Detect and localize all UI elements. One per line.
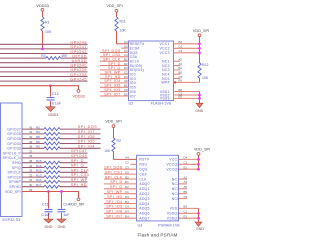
svg-text:SPI_Q: SPI_Q — [71, 164, 84, 168]
svg-text:R16: R16 — [36, 164, 42, 168]
svg-text:R9: R9 — [36, 140, 40, 144]
svg-text:SPI_WP: SPI_WP — [71, 178, 88, 182]
svg-text:C4: C4 — [179, 49, 183, 53]
svg-text:499: 499 — [61, 54, 67, 58]
svg-text:SPIHD: SPIHD — [9, 185, 21, 189]
svg-text:VDD_SPI: VDD_SPI — [193, 29, 209, 33]
svg-text:FLASH-1V8: FLASH-1V8 — [151, 101, 171, 105]
svg-text:VDD_SPI: VDD_SPI — [106, 4, 122, 8]
svg-text:VSSQ3: VSSQ3 — [167, 217, 180, 221]
svg-text:GPIO37: GPIO37 — [7, 127, 21, 131]
svg-text:RST#: RST# — [139, 158, 149, 162]
svg-text:GND: GND — [58, 225, 66, 229]
svg-text:ESP32-S3: ESP32-S3 — [3, 218, 21, 222]
svg-text:IO7: IO7 — [130, 94, 136, 98]
svg-text:SPI_IO4: SPI_IO4 — [78, 144, 95, 148]
svg-text:U0TXD: U0TXD — [72, 54, 87, 58]
svg-text:10K: 10K — [45, 30, 52, 34]
svg-text:U0RXD: U0RXD — [72, 59, 87, 63]
svg-text:VSS1: VSS1 — [170, 207, 180, 211]
svg-text:SI(IO0): SI(IO0) — [130, 64, 143, 68]
svg-text:SPI_HD: SPI_HD — [71, 183, 87, 187]
svg-text:SPI_DQS: SPI_DQS — [78, 125, 97, 129]
svg-text:ADQ7: ADQ7 — [139, 217, 149, 221]
svg-text:SPI_IO5: SPI_IO5 — [78, 140, 95, 144]
svg-text:R14: R14 — [36, 178, 42, 182]
svg-text:R2: R2 — [117, 139, 122, 143]
svg-text:GPIO33: GPIO33 — [7, 147, 21, 151]
svg-text:SPIQ: SPIQ — [12, 166, 21, 170]
svg-text:VSSQ2: VSSQ2 — [167, 212, 180, 216]
svg-text:GPIO48: GPIO48 — [71, 154, 87, 158]
svg-text:R20: R20 — [36, 169, 42, 173]
svg-text:GPIO42: GPIO42 — [70, 50, 87, 54]
svg-text:GPIO36: GPIO36 — [7, 132, 21, 136]
svg-text:SPI_D: SPI_D — [110, 180, 122, 184]
svg-text:PSRAM-1V8: PSRAM-1V8 — [158, 223, 180, 227]
svg-text:D1: D1 — [179, 45, 183, 49]
svg-text:NC1: NC1 — [172, 177, 180, 181]
svg-text:A4: A4 — [125, 156, 129, 160]
svg-text:10K: 10K — [202, 76, 209, 80]
svg-text:R15: R15 — [36, 159, 42, 163]
svg-text:VDD33: VDD33 — [72, 94, 84, 98]
svg-text:SPI_D: SPI_D — [108, 62, 120, 66]
svg-text:NC2: NC2 — [172, 182, 180, 186]
svg-text:E1: E1 — [184, 166, 188, 170]
svg-text:R4: R4 — [36, 130, 40, 134]
svg-text:SPI_HD: SPI_HD — [107, 195, 122, 199]
svg-text:DQS: DQS — [139, 168, 148, 172]
svg-text:GPIO40: GPIO40 — [70, 64, 87, 68]
svg-text:GPIO38: GPIO38 — [70, 73, 87, 77]
svg-text:SPICS0: SPICS0 — [7, 175, 21, 179]
svg-text:IO4: IO4 — [130, 81, 136, 85]
svg-text:GPIO39: GPIO39 — [70, 68, 87, 72]
svg-text:C1: C1 — [184, 161, 188, 165]
svg-text:R6: R6 — [36, 145, 40, 149]
svg-text:1uF: 1uF — [63, 213, 69, 217]
svg-text:GPIO45: GPIO45 — [70, 77, 87, 81]
svg-text:B3: B3 — [184, 205, 188, 209]
svg-text:SPI_WP: SPI_WP — [105, 71, 121, 75]
svg-text:VDD_SPI: VDD_SPI — [69, 202, 84, 206]
svg-text:SPI_WP: SPI_WP — [106, 190, 122, 194]
svg-text:R12: R12 — [202, 63, 208, 67]
svg-text:C14: C14 — [63, 202, 69, 206]
svg-text:VDD_SPI: VDD_SPI — [105, 120, 121, 124]
svg-text:SPIWP: SPIWP — [9, 180, 22, 184]
svg-text:SPI_CS0: SPI_CS0 — [71, 173, 89, 177]
svg-text:ADQ6: ADQ6 — [139, 212, 149, 216]
svg-text:VCC1: VCC1 — [169, 158, 179, 162]
svg-text:C13: C13 — [52, 92, 58, 96]
svg-text:CS#: CS# — [130, 55, 137, 59]
svg-text:A5: A5 — [184, 185, 188, 189]
svg-text:GPIO47: GPIO47 — [71, 149, 87, 153]
svg-text:R3: R3 — [41, 54, 45, 58]
svg-text:SPI_IO4: SPI_IO4 — [106, 200, 122, 204]
svg-text:VDD33: VDD33 — [36, 3, 49, 8]
svg-text:GND: GND — [195, 109, 203, 113]
svg-text:ADQ0: ADQ0 — [139, 182, 149, 186]
svg-text:GPIO35: GPIO35 — [7, 137, 21, 141]
svg-text:IO6: IO6 — [130, 90, 136, 94]
svg-text:SPI_CLK: SPI_CLK — [105, 175, 123, 179]
svg-text:R11: R11 — [120, 20, 126, 24]
svg-text:U2: U2 — [129, 101, 134, 105]
svg-text:CLK: CLK — [139, 177, 147, 181]
svg-text:R1: R1 — [45, 21, 50, 25]
svg-text:NC5: NC5 — [172, 197, 180, 201]
svg-text:10K: 10K — [120, 29, 127, 33]
svg-text:ADQ5: ADQ5 — [139, 207, 149, 211]
svg-text:SPI_IO6: SPI_IO6 — [106, 210, 122, 214]
svg-text:VCCQ3: VCCQ3 — [166, 168, 179, 172]
svg-text:ADQ3: ADQ3 — [139, 197, 149, 201]
svg-text:R13: R13 — [36, 173, 42, 177]
svg-text:RSU: RSU — [139, 163, 147, 167]
svg-text:NC3: NC3 — [172, 187, 180, 191]
svg-text:GPIO48: GPIO48 — [70, 41, 87, 45]
svg-text:GND: GND — [196, 227, 204, 231]
svg-text:10K: 10K — [104, 149, 111, 153]
svg-text:SPI_IO6: SPI_IO6 — [104, 88, 120, 92]
svg-text:SPI_IO7: SPI_IO7 — [106, 215, 122, 219]
svg-text:SPI_IO5: SPI_IO5 — [106, 205, 122, 209]
svg-text:E3: E3 — [184, 215, 188, 219]
svg-text:SPI_Q: SPI_Q — [110, 185, 123, 189]
svg-text:SPI_IO7: SPI_IO7 — [104, 92, 120, 96]
svg-text:GND: GND — [45, 225, 53, 229]
svg-text:SPI_CLK: SPI_CLK — [71, 168, 89, 172]
svg-text:SPICLK_N: SPICLK_N — [3, 156, 22, 160]
svg-text:D4: D4 — [184, 156, 188, 160]
svg-text:0.1uF: 0.1uF — [42, 213, 51, 217]
svg-text:B3: B3 — [179, 79, 183, 83]
svg-text:B4: B4 — [179, 40, 183, 44]
svg-text:WP#: WP# — [161, 81, 169, 85]
svg-text:VCCQ2: VCCQ2 — [166, 163, 179, 167]
svg-text:SPI_CS0: SPI_CS0 — [103, 53, 121, 57]
svg-text:U3: U3 — [138, 223, 143, 227]
svg-text:VSS3: VSS3 — [160, 97, 170, 101]
svg-text:SPID: SPID — [12, 161, 21, 165]
svg-text:SPICLK: SPICLK — [7, 171, 21, 175]
svg-text:SPI_IO4: SPI_IO4 — [104, 79, 120, 83]
svg-text:B5: B5 — [184, 190, 188, 194]
svg-text:C5: C5 — [184, 195, 188, 199]
svg-text:NC4: NC4 — [172, 192, 180, 196]
svg-text:A3: A3 — [184, 180, 188, 184]
svg-text:ADQ4: ADQ4 — [139, 202, 149, 206]
svg-text:SPI_CS1: SPI_CS1 — [105, 170, 123, 174]
svg-text:R5: R5 — [36, 125, 40, 129]
svg-text:GND3: GND3 — [48, 113, 58, 117]
svg-text:CE#: CE# — [139, 172, 146, 176]
svg-text:NC2: NC2 — [162, 64, 170, 68]
svg-text:SPI_D: SPI_D — [71, 159, 84, 163]
svg-text:SPI_DQS: SPI_DQS — [104, 166, 123, 170]
svg-text:A2: A2 — [184, 175, 188, 179]
svg-text:R8: R8 — [36, 135, 40, 139]
svg-text:VCC1: VCC1 — [159, 42, 169, 46]
svg-text:IO2: IO2 — [130, 73, 136, 77]
svg-text:C1: C1 — [184, 210, 188, 214]
svg-text:VDD_SPI: VDD_SPI — [194, 148, 210, 152]
svg-text:R17: R17 — [36, 183, 42, 187]
svg-text:0.1uF: 0.1uF — [52, 102, 61, 106]
svg-text:Flash and PSRAM: Flash and PSRAM — [137, 232, 177, 237]
svg-text:ECS#: ECS# — [130, 46, 140, 50]
svg-text:SPICLK_P: SPICLK_P — [3, 151, 22, 155]
svg-text:C13: C13 — [42, 202, 48, 206]
svg-text:GPIO47: GPIO47 — [70, 45, 87, 49]
svg-text:A3: A3 — [179, 62, 183, 66]
svg-text:VCC3: VCC3 — [159, 51, 169, 55]
svg-text:C2: C2 — [125, 161, 129, 165]
svg-text:GPIO34: GPIO34 — [7, 142, 21, 146]
svg-text:SPI_IO7: SPI_IO7 — [78, 130, 95, 134]
svg-text:ADQ1: ADQ1 — [139, 187, 149, 191]
svg-text:SPI_IO6: SPI_IO6 — [78, 135, 95, 139]
svg-text:VDD_SPI: VDD_SPI — [5, 190, 21, 194]
svg-text:E5: E5 — [179, 95, 183, 99]
svg-text:VCC2: VCC2 — [159, 47, 169, 51]
svg-text:ADQ2: ADQ2 — [139, 192, 149, 196]
